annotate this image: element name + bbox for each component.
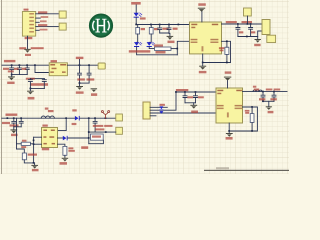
capacitor C8 bbox=[28, 79, 32, 89]
wire IC4 top pin bbox=[227, 81, 229, 88]
capacitor C2 bbox=[167, 25, 171, 34]
junction divider b bbox=[33, 143, 35, 145]
GND text bat caps bbox=[268, 111, 274, 113]
junction rail c12 bbox=[20, 117, 22, 119]
junction bus extra bbox=[178, 24, 180, 26]
junction C4 bbox=[250, 23, 252, 25]
label C15 bbox=[187, 96, 193, 98]
capacitor C1 bbox=[158, 25, 162, 34]
ground input caps bbox=[8, 76, 15, 80]
wire gnd stem IC4 bbox=[228, 131, 230, 133]
junction R9 top bbox=[251, 106, 253, 108]
label R3 below bbox=[156, 51, 166, 53]
label C2 bbox=[173, 28, 178, 30]
capacitor C17 bbox=[261, 92, 265, 102]
wire IC1 bottom pin bbox=[202, 54, 204, 63]
wire R2 top bbox=[150, 25, 152, 28]
net label pin4 bbox=[38, 24, 47, 26]
GND text out caps bbox=[76, 91, 84, 93]
junction c16 bbox=[195, 91, 197, 93]
wire bat caps bottom bbox=[263, 100, 274, 102]
wire LED1 to bus bbox=[135, 17, 137, 24]
wire R9 top bbox=[251, 107, 253, 114]
GND text vcc caps bbox=[191, 111, 198, 114]
label C14 bbox=[92, 136, 101, 138]
wire SW node down bbox=[58, 118, 67, 130]
label C3 bbox=[239, 31, 243, 33]
wire IC4 right-mid loop bbox=[229, 107, 257, 131]
wire RC bottom bbox=[30, 88, 44, 90]
wire U1 bottom pin to ground bbox=[27, 36, 29, 49]
wire VCC to IC4 bbox=[176, 91, 216, 93]
wire P3 down bbox=[247, 16, 249, 24]
wire J1 pin3 bbox=[150, 112, 216, 114]
led LED1 bbox=[134, 13, 142, 18]
label L2 bbox=[253, 86, 256, 88]
junction bat gnd bbox=[262, 100, 264, 102]
capacitor C10 bbox=[87, 65, 91, 83]
junction R9 bottom bbox=[251, 130, 253, 132]
wire input rail bbox=[2, 117, 75, 119]
label R3 above bbox=[154, 44, 163, 46]
wire gnd stem bbox=[11, 75, 13, 77]
GND text batt bbox=[254, 44, 260, 46]
ground battery caps bbox=[255, 39, 261, 43]
GND text above IC1 bbox=[198, 3, 206, 6]
label C16 bbox=[198, 96, 204, 98]
wire node d down bbox=[88, 118, 90, 144]
wire R6 right bbox=[31, 143, 34, 145]
junction out gnd bbox=[79, 82, 81, 84]
wire node to IC1 left mid pin bbox=[177, 41, 189, 55]
junction rail c11 bbox=[13, 117, 15, 119]
label R6 value bbox=[21, 146, 26, 148]
junction RC gnd bbox=[30, 88, 32, 90]
led LED2 bbox=[134, 42, 142, 47]
junction 3V3 bbox=[79, 64, 81, 66]
junction EN branch bbox=[34, 64, 36, 66]
wire bus to IC1 bbox=[136, 24, 189, 26]
junction bus-LED1 bbox=[135, 24, 137, 26]
label R1 bbox=[141, 28, 145, 30]
GND text R8 bbox=[60, 162, 68, 165]
capacitor C13 bbox=[93, 118, 97, 132]
wire R4 top bbox=[226, 41, 228, 47]
wire R9 bottom bbox=[251, 123, 253, 132]
capacitor C16 bbox=[194, 92, 198, 103]
junction SW node bbox=[65, 117, 67, 119]
wire rail after diode bbox=[80, 117, 116, 119]
net label +3V3 bbox=[76, 57, 84, 59]
junction caps gnd bbox=[11, 74, 13, 76]
wire R4 bottom bbox=[226, 55, 228, 63]
wire IN pin bbox=[34, 136, 42, 138]
junction wire2 a bbox=[88, 131, 90, 133]
junction rail f bbox=[105, 117, 107, 119]
resistor R3 (horizontal) bbox=[155, 47, 172, 50]
capacitor C3 bbox=[236, 24, 240, 37]
wire caps bottom buck bbox=[14, 126, 21, 128]
ground 2 bbox=[91, 88, 98, 92]
ground R8 bbox=[62, 158, 68, 162]
label LED part text bbox=[129, 50, 151, 52]
wire IC4 bottom pin bbox=[228, 123, 230, 131]
diode D2 bbox=[63, 136, 68, 141]
net label pin3 bbox=[40, 20, 47, 22]
capacitor C4 bbox=[249, 24, 253, 37]
port 3V3 bbox=[98, 63, 105, 69]
label D1 bbox=[72, 109, 76, 111]
wire to R7 bbox=[17, 149, 25, 153]
label L2 value bbox=[254, 89, 259, 91]
capacitor C6 bbox=[17, 65, 21, 74]
resistor R9 bbox=[250, 114, 254, 123]
wire R2 to LED3 bbox=[149, 34, 151, 42]
wire J1 pin4 bbox=[150, 115, 156, 117]
port P4 bbox=[267, 35, 276, 42]
junction bus C1 bbox=[159, 24, 161, 26]
wire RC gnd stem bbox=[29, 89, 31, 91]
GND text buck input bbox=[11, 134, 18, 136]
wire J1 pin2 bbox=[150, 92, 176, 110]
ground bus caps bbox=[167, 36, 174, 40]
junction R4 bottom bbox=[226, 62, 228, 64]
wire C14 bottom loop bbox=[89, 140, 104, 144]
wire R6 left bbox=[17, 143, 22, 145]
part text U2 bbox=[30, 83, 48, 86]
wire U1 pin5 stub bbox=[36, 29, 40, 31]
label R8 bbox=[68, 147, 73, 149]
GND text above IC4 bbox=[225, 71, 232, 73]
wire EN pin bbox=[34, 143, 42, 145]
capacitor C12 bbox=[19, 118, 23, 127]
connector J1 bbox=[143, 102, 150, 119]
inductor L1 bbox=[41, 116, 54, 118]
wire vcc caps bottom bbox=[185, 102, 196, 104]
wire IC1 gnd stem bbox=[202, 63, 204, 66]
netflag +5V bbox=[101, 111, 109, 119]
GND text input caps bbox=[7, 82, 14, 84]
label D1 value bbox=[72, 123, 77, 125]
junction rail d bbox=[88, 117, 90, 119]
label C18 bbox=[270, 98, 276, 100]
label D3 bbox=[160, 104, 165, 106]
junction c15 bbox=[184, 91, 186, 93]
GND text divider bbox=[32, 169, 39, 171]
net label pin2 bbox=[41, 16, 49, 18]
wire C1-C2 bottom bbox=[160, 32, 169, 34]
label R7 bbox=[28, 154, 37, 156]
ground IC4 bbox=[226, 133, 233, 137]
capacitor C14 electrolytic box bbox=[91, 134, 104, 140]
junction divider bottom bbox=[33, 162, 35, 164]
ground RC bbox=[27, 91, 34, 95]
label C1 bbox=[162, 28, 168, 30]
label right of ground bbox=[31, 47, 44, 49]
junction IC1 gnd bbox=[202, 62, 204, 64]
GND text ground2 bbox=[91, 93, 97, 96]
label R2 bbox=[154, 28, 158, 30]
label L1 bbox=[45, 108, 49, 110]
wire R3 to node bbox=[171, 48, 177, 50]
U1 part number label bbox=[25, 37, 33, 39]
label U4 bbox=[42, 125, 47, 127]
label RC cluster bbox=[26, 78, 35, 80]
ground U1 bbox=[24, 49, 30, 53]
label C17 bbox=[259, 98, 265, 100]
capacitor C11 bbox=[12, 118, 16, 127]
wire gnd stem divider bbox=[34, 163, 36, 165]
wire IC1 right-mid pin loop bbox=[203, 41, 231, 62]
label L1 value bbox=[48, 110, 54, 112]
resistor R7 bbox=[22, 153, 26, 160]
wire diode row bbox=[58, 137, 63, 139]
ldo U2 bbox=[49, 63, 67, 76]
GND text bus bbox=[168, 41, 175, 43]
label U2 bbox=[51, 60, 58, 62]
capacitor C15 bbox=[183, 92, 187, 103]
capacitor C5 bbox=[10, 65, 14, 74]
resistor R6 horizontal bbox=[21, 142, 30, 145]
wire gnd stem bat caps bbox=[268, 101, 270, 106]
port P6 bbox=[116, 127, 123, 134]
ic U4 buck bbox=[42, 128, 58, 148]
labels output caps buck bbox=[93, 125, 104, 127]
junction wire2 b bbox=[105, 131, 107, 133]
wire 5V rail bbox=[2, 64, 49, 66]
wire out caps bottom bbox=[80, 82, 90, 84]
resistor R8 bbox=[63, 146, 67, 155]
ground out caps bbox=[76, 86, 83, 90]
net label right bbox=[274, 89, 281, 91]
port P5 bbox=[116, 114, 123, 121]
ground vcc caps bbox=[190, 105, 197, 109]
wire divider vertical bbox=[33, 137, 35, 163]
wire caps bottom bbox=[238, 31, 262, 37]
capacitor C9 bbox=[78, 65, 82, 83]
wire caps bottom bbox=[12, 74, 28, 76]
labels buck input caps bbox=[2, 122, 10, 124]
wire out gnd stem bbox=[79, 83, 81, 86]
wire R1 top bbox=[137, 25, 139, 28]
wire U1 pin1 to port P1 bbox=[36, 13, 59, 15]
net label VCC 5V bbox=[176, 89, 188, 91]
label R6 bbox=[22, 140, 27, 142]
wire to port P6 bbox=[89, 131, 116, 133]
label C10 bbox=[87, 78, 95, 80]
wire EN branch bbox=[35, 65, 49, 72]
GND text IC4 bbox=[226, 137, 233, 140]
label R9 value bbox=[245, 112, 249, 114]
EN RC cluster top wire bbox=[30, 78, 44, 80]
junction divider a bbox=[33, 140, 35, 142]
ground bat caps bbox=[266, 106, 272, 110]
junction IC4 gnd bbox=[228, 130, 230, 132]
wire R7 bottom bbox=[24, 160, 33, 163]
connector BAT bbox=[262, 20, 270, 35]
GND text RC bbox=[28, 97, 35, 100]
net label VCC_5V bbox=[4, 60, 16, 62]
GND text IC1 bbox=[199, 71, 207, 73]
wire IC1 right-top to battery bbox=[222, 23, 263, 25]
label floating bbox=[81, 146, 88, 149]
label R8 value bbox=[68, 150, 74, 152]
labels input caps bbox=[3, 68, 9, 70]
label C9 bbox=[77, 78, 85, 80]
ground divider bbox=[31, 165, 38, 169]
junction R4 top bbox=[226, 40, 228, 42]
label LED1 bbox=[140, 17, 146, 19]
mcu U1 bbox=[22, 12, 35, 37]
ic U3 bbox=[190, 22, 222, 54]
net label +5V bbox=[131, 2, 141, 5]
junction rail a bbox=[7, 117, 9, 119]
junction bus-R2 bbox=[150, 24, 152, 26]
resistor R5 small bbox=[42, 79, 46, 89]
GND text U1 bbox=[25, 54, 31, 56]
wire J1 pin1 bbox=[150, 106, 167, 108]
net label VCC_BAT2 bbox=[266, 89, 273, 91]
wire R8 bottom bbox=[64, 155, 66, 157]
wire U1 pin2 stub bbox=[36, 17, 41, 19]
port P3 top bbox=[244, 8, 252, 16]
label R4 bbox=[219, 47, 224, 49]
tvs D3 bbox=[159, 106, 163, 114]
wire gnd stem vcc caps bbox=[193, 103, 195, 105]
wire diode to node bbox=[68, 137, 89, 139]
logo circle bbox=[90, 14, 112, 36]
label U1 bbox=[24, 9, 29, 11]
label C4 bbox=[251, 31, 255, 33]
part text U4 bbox=[42, 148, 49, 150]
inductor L2 bbox=[253, 90, 262, 92]
wire +5V down bbox=[135, 5, 137, 13]
net label pin1 bbox=[38, 11, 47, 13]
wire LED3 to R3 bbox=[149, 47, 154, 49]
junction rail c7 bbox=[26, 64, 28, 66]
junction node bbox=[176, 48, 178, 50]
wire LED2 to bottom rail bbox=[137, 47, 178, 55]
junction diode node bbox=[88, 137, 90, 139]
junction P3 bbox=[247, 23, 249, 25]
junction rail e bbox=[94, 117, 96, 119]
junction rail c5 bbox=[11, 64, 13, 66]
junction vcc left bbox=[175, 91, 177, 93]
wire U2 VOUT bbox=[67, 64, 98, 66]
port P2 bbox=[59, 23, 66, 30]
resistor R4 feedback bbox=[225, 47, 229, 54]
junction C3 bbox=[237, 23, 239, 25]
wire rail branch down bbox=[16, 118, 18, 149]
ic U5 charger2 bbox=[216, 88, 243, 123]
led LED3 bbox=[147, 42, 155, 47]
port P1 bbox=[59, 11, 66, 18]
wire IC1 top pin bbox=[201, 11, 203, 22]
wire U1 pin3 stub bbox=[36, 21, 40, 23]
wire U1 pin4 to port P2 bbox=[36, 25, 59, 27]
junction gnd batt bbox=[246, 36, 248, 38]
label left of ground bbox=[19, 47, 26, 49]
ground above IC1 bbox=[198, 8, 205, 12]
junction bus C2 bbox=[168, 24, 170, 26]
junction c18 bbox=[273, 91, 275, 93]
diode D1 on rail bbox=[75, 116, 80, 121]
junction c17 bbox=[262, 91, 264, 93]
net label on wire bbox=[226, 21, 237, 23]
net label VCC_BAT bbox=[242, 21, 253, 23]
wire FB pin bbox=[58, 144, 65, 146]
wire gnd stem batt bbox=[257, 37, 259, 40]
resistor R2 bbox=[149, 27, 153, 34]
label R9 bbox=[245, 110, 250, 112]
ground above IC4 bbox=[224, 77, 231, 81]
ground buck input bbox=[10, 129, 17, 133]
net label VCC_5V0 bbox=[6, 114, 18, 116]
junction c10 bbox=[88, 64, 90, 66]
wire gnd stem buck input bbox=[13, 127, 15, 130]
capacitor C18 bbox=[272, 92, 276, 102]
resistor R1 bbox=[136, 27, 140, 34]
wire +3V3 up bbox=[79, 60, 81, 66]
ground IC1 bbox=[199, 66, 206, 70]
capacitor C7 bbox=[25, 65, 29, 74]
junction rail c6 bbox=[19, 64, 21, 66]
net label pin5 bbox=[40, 29, 48, 31]
wire R1 to LED2 bbox=[137, 34, 138, 42]
wire cap to ground bbox=[169, 33, 171, 36]
wire IC4 right-top bbox=[243, 91, 288, 93]
